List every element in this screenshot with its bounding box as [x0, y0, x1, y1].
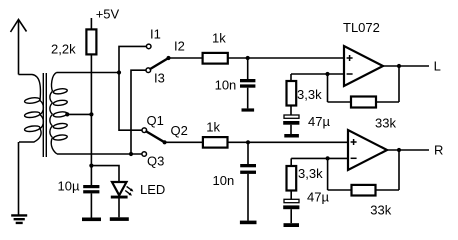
svg-text:L: L [434, 59, 441, 74]
ground bar 10µ [82, 218, 101, 222]
op-amp U1a [344, 46, 383, 86]
node center tap dot [65, 112, 69, 116]
wire feedback vertical right (R) [398, 150, 400, 190]
switch contact Q1 [142, 128, 147, 133]
wire 3,3k bottom lead (L) [290, 106, 292, 116]
ground bar 47µ (L) [284, 134, 299, 138]
switch contact I1 [146, 44, 151, 49]
node I2 pivot [166, 56, 170, 60]
wire 3,3k bottom lead (R) [290, 191, 292, 200]
wire 3,3k top lead (L) [290, 74, 292, 81]
wire antenna-to-ground left vertical [18, 142, 20, 215]
wire feedback vertical right (L) [398, 66, 400, 102]
switch lever Q2 [146, 132, 164, 143]
capacitor 10n (L) [240, 58, 255, 108]
wire 10µ node to LED [91, 166, 119, 182]
transformer left winding [19, 75, 44, 143]
capacitor 10µ [83, 185, 99, 193]
transformer core [43, 73, 46, 157]
resistor 33k (L) [351, 97, 376, 108]
node Q2 pivot [163, 140, 167, 144]
svg-text:10µ: 10µ [58, 179, 80, 194]
svg-text:1k: 1k [206, 120, 220, 135]
svg-text:R: R [434, 143, 443, 158]
node output junction (R) [397, 148, 401, 152]
svg-text:10n: 10n [213, 173, 235, 188]
node Q3 junction [129, 152, 133, 156]
resistor 2,2k [86, 29, 96, 54]
switch contact I3 [146, 68, 151, 73]
switch lever I2 [150, 58, 168, 69]
node minus row junction (R) [326, 156, 330, 160]
wire 1k to op-amp + (R) [228, 141, 349, 143]
capacitor 47µ (L) [283, 115, 299, 134]
svg-text:3,3k: 3,3k [297, 87, 322, 102]
svg-text:3,3k: 3,3k [298, 166, 323, 181]
svg-text:Q3: Q3 [147, 153, 164, 168]
node 10µ junction [89, 164, 93, 168]
svg-text:I2: I2 [174, 38, 185, 53]
wire I3 to Q3 row [131, 70, 146, 154]
node minus row junction (L) [325, 72, 329, 76]
ground bar 47µ (R) [284, 223, 300, 227]
wire +5V lead [90, 18, 92, 29]
wire 3,3k top lead (R) [290, 158, 292, 166]
wire 1k to op-amp + (L) [228, 57, 344, 59]
svg-text:33k: 33k [370, 203, 391, 218]
svg-text:+5V: +5V [96, 7, 120, 22]
ground bar LED [110, 217, 129, 221]
svg-text:I1: I1 [150, 26, 161, 41]
op-amp U1b [348, 130, 387, 170]
svg-text:33k: 33k [375, 115, 396, 130]
switch contact Q3 [142, 152, 147, 157]
capacitor 47µ (R) [283, 199, 299, 223]
wire op-amp2 minus row [291, 157, 348, 159]
wire 10µ bottom [90, 193, 92, 217]
wire Q2 to 1k [165, 141, 203, 143]
wire op-amp1 minus row [291, 73, 344, 75]
wire output (L) [383, 65, 429, 67]
svg-text:47µ: 47µ [307, 190, 329, 205]
ground (earth symbol, antenna) [11, 215, 27, 223]
node transformer top junction [117, 70, 121, 74]
node 10n junction (L) [246, 56, 250, 60]
wire feedback vertical left (L) [327, 74, 329, 102]
wire output (R) [387, 149, 429, 151]
LED D1 [111, 182, 134, 199]
wire transformer top lead [57, 72, 120, 74]
transformer right winding [50, 73, 68, 155]
node output junction (L) [397, 64, 401, 68]
svg-text:Q2: Q2 [171, 123, 188, 138]
node 10n junction (R) [246, 140, 250, 144]
svg-text:LED: LED [140, 182, 165, 197]
wire feedback row (R) [328, 189, 399, 191]
svg-text:1k: 1k [212, 31, 226, 46]
node center tap / 2,2k junction [89, 112, 93, 116]
wire Q3 row [57, 153, 142, 155]
resistor 3,3k (R) [287, 166, 297, 191]
resistor 1k (R) [203, 137, 228, 148]
antenna [11, 20, 27, 75]
wire I1 to Q1 [119, 46, 146, 130]
svg-text:I3: I3 [154, 71, 165, 86]
ground bar 10n (L) [242, 108, 255, 111]
svg-text:10n: 10n [215, 78, 237, 93]
wire feedback row (L) [328, 101, 400, 103]
wire LED bottom [118, 199, 120, 218]
resistor 33k (R) [352, 185, 376, 196]
wire center tap [67, 113, 91, 115]
svg-text:TL072: TL072 [343, 20, 380, 35]
capacitor 10n (R) [240, 142, 256, 220]
svg-text:47µ: 47µ [308, 114, 330, 129]
resistor 1k (L) [203, 53, 228, 64]
resistor 3,3k (L) [287, 81, 297, 106]
svg-text:2,2k: 2,2k [51, 41, 76, 56]
wire I2 to 1k [169, 57, 203, 59]
wire feedback vertical left (R) [327, 158, 329, 190]
svg-text:Q1: Q1 [147, 113, 164, 128]
ground bar 10n (R) [240, 221, 257, 225]
wire 2,2k bottom to 10µ [90, 54, 92, 185]
